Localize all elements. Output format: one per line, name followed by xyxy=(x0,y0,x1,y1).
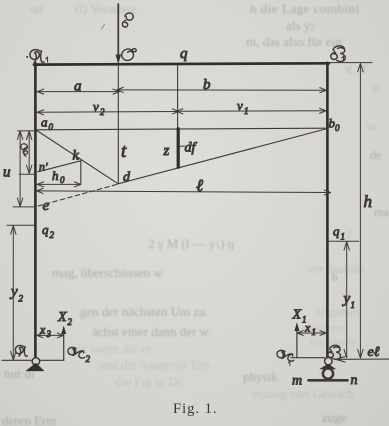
svg-text:m: m xyxy=(292,374,302,389)
bleed-through text top line 3 xyxy=(246,34,342,50)
dimension v2 xyxy=(37,109,179,115)
svg-text:q: q xyxy=(333,224,340,239)
bleed-through text middle row 2 xyxy=(52,265,163,281)
svg-text:1: 1 xyxy=(244,106,249,116)
svg-text:0: 0 xyxy=(49,122,54,132)
left support pin (hinge circle) xyxy=(32,358,39,365)
bleed-through fragment bottom left xyxy=(4,366,35,382)
label A (script, support) xyxy=(15,345,27,356)
label t xyxy=(121,141,127,162)
svg-text:v: v xyxy=(93,99,99,114)
bleed-through fragment right row 2 xyxy=(308,261,365,277)
label B1 (script, top right) xyxy=(331,46,345,62)
svg-text:x: x xyxy=(39,323,46,337)
svg-text:h: h xyxy=(364,192,373,211)
dimension u (a0 to e) xyxy=(17,131,22,207)
left support baseline xyxy=(2,359,64,361)
svg-text:a: a xyxy=(74,79,82,95)
node a0 xyxy=(41,115,54,133)
svg-text:2: 2 xyxy=(19,294,24,304)
label k xyxy=(73,149,80,164)
dimension v1 xyxy=(176,108,326,114)
dimension a xyxy=(37,89,119,94)
svg-text:a: a xyxy=(41,115,48,130)
node b0 xyxy=(329,116,341,134)
node e xyxy=(43,198,50,214)
svg-text:0: 0 xyxy=(60,175,65,185)
label p (script glyph) xyxy=(21,144,28,157)
svg-text:ℓ: ℓ xyxy=(196,176,203,195)
tick top (a0 level) xyxy=(18,130,35,132)
bleed-through faint fragment top far-left xyxy=(30,1,43,17)
svg-text:X: X xyxy=(57,310,67,325)
svg-text:v: v xyxy=(237,98,243,113)
svg-text:u: u xyxy=(3,165,11,181)
extension line right of beam xyxy=(329,62,372,64)
label B (script, support) xyxy=(328,345,341,359)
svg-text:2: 2 xyxy=(50,230,55,240)
line e' with arrow to pin xyxy=(336,357,389,362)
svg-text:1: 1 xyxy=(312,327,317,337)
dimension l (span) xyxy=(37,188,331,195)
ground line m-n xyxy=(309,379,348,382)
label h0 xyxy=(52,168,65,185)
bleed-through text top line 1 xyxy=(250,1,360,17)
force X2 arrow xyxy=(61,326,66,361)
bleed-through text middle row 3 xyxy=(80,304,206,320)
force X1 arrow xyxy=(294,322,299,358)
svg-text:0: 0 xyxy=(335,123,340,133)
line n' to k xyxy=(38,161,81,172)
right support roller circle xyxy=(323,369,333,379)
bleed-through fragment right row 3 xyxy=(315,304,360,320)
label N1 (script) xyxy=(277,350,294,365)
svg-text:b: b xyxy=(203,77,211,93)
left column xyxy=(34,63,37,359)
dimension p (a0 to n') xyxy=(27,131,32,173)
dimension h0 xyxy=(37,182,81,187)
label x3 xyxy=(39,323,52,340)
bleed-through text middle row 5 xyxy=(70,341,151,357)
bleed-through text top line 2 xyxy=(286,18,315,34)
dimension x1 xyxy=(297,331,326,336)
label v1 xyxy=(237,98,249,116)
bleed-through fragment right row 1 xyxy=(335,226,352,242)
bleed-through fragment right band C xyxy=(366,120,377,135)
svg-text:df: df xyxy=(185,141,198,156)
label n' xyxy=(39,160,48,174)
bleed-through fragment right row 5 xyxy=(310,334,354,350)
top beam A1-B1 xyxy=(34,63,329,64)
bleed-through fragment right band B xyxy=(372,81,381,96)
bleed-through formula middle xyxy=(148,236,234,252)
label N2 (script) xyxy=(68,347,91,364)
label z xyxy=(163,143,170,159)
svg-text:2: 2 xyxy=(100,107,105,117)
label e' (script) xyxy=(368,345,380,360)
label X2 xyxy=(57,310,73,327)
svg-text:e: e xyxy=(43,198,50,214)
svg-text:eℓ: eℓ xyxy=(368,345,380,360)
dimension b xyxy=(117,87,326,92)
label u xyxy=(3,165,11,181)
stray mark above beam xyxy=(102,25,105,30)
svg-text:t: t xyxy=(121,141,127,162)
node q (vertical line below q) xyxy=(177,66,179,129)
dimension h (column height) xyxy=(358,63,363,358)
bleed-through bottom row wide xyxy=(252,386,353,402)
tick bottom (e level) xyxy=(13,206,34,208)
svg-text:2: 2 xyxy=(68,317,73,327)
dimension x3 xyxy=(37,333,63,338)
dashed line e to d xyxy=(38,184,118,206)
line a0 to d xyxy=(37,131,118,184)
label v2 xyxy=(93,99,105,117)
node q1 xyxy=(333,224,345,242)
strip df (thick bar) at q xyxy=(177,129,180,168)
tick at q1 xyxy=(328,240,359,242)
label A1 (script, top left) xyxy=(26,50,47,63)
bleed-through fragment right edge 3 xyxy=(332,270,338,285)
node k and drop line xyxy=(80,161,82,185)
svg-text:1: 1 xyxy=(351,300,356,310)
bleed-through fragment right edge 2 xyxy=(374,205,389,220)
tick at q2 xyxy=(7,224,35,226)
svg-text:h: h xyxy=(52,168,59,183)
svg-text:z: z xyxy=(163,143,170,159)
right support triangle xyxy=(319,364,336,370)
svg-text:d: d xyxy=(123,170,131,185)
node q2 xyxy=(42,222,55,240)
svg-text:y: y xyxy=(342,291,351,307)
right support pin circle xyxy=(325,358,332,365)
label x1 xyxy=(304,321,316,338)
bleed-through text middle row 4 xyxy=(92,324,209,340)
bleed-through fragment bottom edge left xyxy=(2,413,57,426)
caption Fig. 1. xyxy=(173,401,217,418)
label df xyxy=(185,141,198,156)
bleed-through text middle row 7 xyxy=(115,374,182,390)
bleed-through fragment right row 4 xyxy=(302,320,343,336)
bleed-through faint fragment top mid xyxy=(75,1,137,17)
chord line a0-b0 xyxy=(37,128,327,130)
label m xyxy=(292,374,302,389)
svg-text:n: n xyxy=(351,373,358,388)
node d xyxy=(123,170,131,185)
load line below beam to d xyxy=(117,66,119,184)
label b xyxy=(203,77,211,93)
label D (script) at load point xyxy=(122,49,136,61)
line N1 to pin xyxy=(291,357,325,359)
label n xyxy=(351,373,358,388)
label P (script) xyxy=(122,13,133,27)
dimension y2 xyxy=(11,226,16,360)
label y1 xyxy=(342,291,356,310)
line d to b0 xyxy=(118,129,327,184)
svg-text:q: q xyxy=(42,222,49,237)
svg-text:y: y xyxy=(9,284,18,300)
svg-text:1: 1 xyxy=(341,232,346,242)
bleed-through text middle row 6 xyxy=(98,357,210,373)
svg-text:x: x xyxy=(304,321,311,335)
bleed-through fragment bottom edge right xyxy=(322,410,347,426)
label q xyxy=(180,46,188,62)
svg-text:2: 2 xyxy=(86,354,91,364)
right column xyxy=(326,63,329,359)
svg-text:3: 3 xyxy=(46,329,52,339)
svg-text:n′: n′ xyxy=(39,160,48,174)
bleed-through fragment right edge 1 xyxy=(370,148,381,163)
left support triangle xyxy=(25,363,44,371)
dimension y1 xyxy=(344,242,349,358)
label h xyxy=(364,192,373,211)
bleed-through fragment right band A xyxy=(346,61,369,76)
tick to df xyxy=(180,145,184,147)
svg-text:q: q xyxy=(180,46,188,62)
label y2 xyxy=(9,284,24,304)
svg-text:X: X xyxy=(292,308,302,323)
load arrow P xyxy=(116,4,122,64)
label X1 xyxy=(292,308,307,325)
bleed-through fragment bottom mid xyxy=(243,369,278,385)
label l (script) xyxy=(196,176,203,195)
tick at n' xyxy=(19,173,36,175)
label a xyxy=(74,79,82,95)
